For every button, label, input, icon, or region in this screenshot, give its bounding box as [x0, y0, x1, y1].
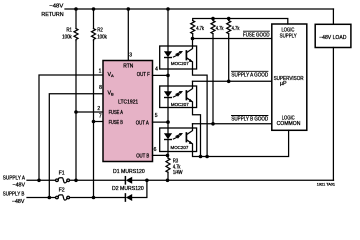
svg-text:OUT A: OUT A: [136, 121, 149, 127]
svg-text:COMMON: COMMON: [277, 121, 301, 127]
opto U3 LED: [167, 128, 169, 133]
svg-text:F2: F2: [59, 188, 65, 194]
svg-text:4: 4: [155, 67, 158, 73]
svg-text:OUT F: OUT F: [137, 72, 151, 78]
resistor R4 4.7k: [191, 21, 195, 34]
wire OUT A stub: [153, 121, 169, 123]
svg-text:SUPPLY: SUPPLY: [280, 33, 297, 39]
svg-text:µP: µP: [280, 81, 287, 87]
diode D1 MURS120: [124, 177, 126, 184]
wire OUT F stub: [153, 74, 169, 76]
node supplyB-VB: [48, 196, 52, 200]
wire opto3 emitter to logic common bus: [193, 130, 289, 156]
svg-text:−48V: −48V: [13, 182, 26, 188]
svg-text:R1: R1: [66, 27, 72, 33]
svg-text:SUPPLY B: SUPPLY B: [3, 192, 25, 198]
resistor R2: [93, 9, 95, 29]
node rail-R1: [74, 7, 78, 11]
wire VB sense L: [49, 94, 103, 198]
wire LED chain opto2 to opto3: [167, 108, 169, 129]
wire FUSEB pin stub: [94, 121, 104, 123]
opto U2 MOC207 box: [160, 86, 197, 108]
wire VA sense L: [39, 75, 103, 180]
wire RTN pin3 drop: [127, 9, 129, 61]
svg-text:SUPPLY A: SUPPLY A: [3, 175, 25, 181]
svg-text:5: 5: [155, 113, 158, 119]
opto U2 arrows: [173, 95, 177, 97]
svg-text:100k: 100k: [97, 35, 107, 41]
node common-opto1: [205, 155, 209, 159]
node common-opto2: [199, 155, 203, 159]
svg-text:VA: VA: [108, 72, 115, 78]
node loadline-R3: [166, 179, 170, 183]
svg-text:FUSE B: FUSE B: [109, 120, 124, 126]
fuse F2: [56, 196, 59, 199]
wire SUPPLY B GOOD: [193, 123, 272, 125]
wire -48V load line: [132, 179, 334, 181]
node rail-R5: [211, 17, 215, 21]
resistor R3: [166, 158, 170, 172]
resistor R1: [75, 9, 77, 29]
svg-text:LTC1921: LTC1921: [118, 100, 138, 106]
node supplyA-VA: [37, 179, 41, 183]
svg-text:FUSE A: FUSE A: [109, 110, 124, 116]
svg-text:1/4W: 1/4W: [173, 170, 183, 176]
node supplyBgood-R5: [211, 122, 215, 126]
opto U1 phototransistor: [185, 51, 187, 60]
svg-text:4.7k: 4.7k: [232, 26, 240, 32]
wire LED chain rail to opto1: [167, 9, 169, 46]
svg-text:OUT B: OUT B: [136, 153, 149, 159]
node OUTA-LED chain: [166, 120, 170, 124]
opto U3 MOC207 box: [160, 128, 197, 152]
node R1-FUSEA: [74, 110, 78, 114]
wire OUT B stub: [153, 154, 168, 156]
svg-text:1: 1: [99, 68, 102, 74]
op IC LTC1921 box: [103, 61, 153, 162]
svg-text:D2 MURS120: D2 MURS120: [112, 186, 144, 192]
node supplyA-R1: [74, 179, 78, 183]
svg-text:1921 TA01: 1921 TA01: [317, 183, 335, 187]
node R2-FUSEB: [92, 120, 96, 124]
wire LED chain opto1 to opto2: [167, 69, 169, 86]
node rail-R2: [92, 7, 96, 11]
wire logic supply pull-up rail: [193, 19, 288, 25]
diode D2 MURS120: [124, 194, 126, 201]
node loadline-D2: [145, 179, 149, 183]
svg-text:SUPPLY B GOOD: SUPPLY B GOOD: [231, 117, 268, 123]
svg-text:F1: F1: [59, 170, 65, 176]
svg-text:−48V: −48V: [12, 199, 25, 205]
wire opto1 emitter to common: [193, 69, 208, 157]
node rail-LED chain: [166, 7, 170, 11]
svg-text:4.7k: 4.7k: [196, 26, 204, 32]
opto U3 phototransistor: [185, 133, 187, 142]
wire opto2 collector to SUPPLY A GOOD: [192, 81, 194, 86]
svg-text:8: 8: [99, 85, 102, 91]
svg-text:MOC207: MOC207: [171, 145, 189, 151]
box logic supply / supervisor / logic common: [272, 24, 307, 130]
svg-text:R2: R2: [97, 27, 103, 33]
opto U2 LED: [167, 86, 169, 91]
overbar SUPPLY A GOOD: [231, 70, 268, 72]
resistor R6 4.7k: [228, 19, 230, 21]
svg-text:100k: 100k: [62, 35, 72, 41]
wire SUPPLY B line: [27, 197, 56, 199]
opto U1 MOC207 box: [160, 46, 197, 69]
wire opto2 emitter to common: [193, 108, 201, 157]
svg-text:−48V: −48V: [49, 4, 63, 10]
resistor R5 4.7k: [212, 19, 214, 21]
wire load box bottom to load line: [332, 48, 334, 181]
opto U2 phototransistor: [185, 91, 187, 100]
node rail-RTN: [127, 7, 131, 11]
node FUSEGOOD-R4: [191, 37, 195, 41]
node OUTF-LED chain: [166, 74, 170, 78]
svg-text:SUPPLY A GOOD: SUPPLY A GOOD: [231, 73, 268, 79]
svg-text:SUPERVISOR: SUPERVISOR: [274, 76, 304, 82]
wire D2 to load line: [132, 180, 147, 197]
svg-text:3: 3: [129, 53, 132, 59]
wire -48V RETURN top rail: [65, 8, 334, 10]
svg-text:MOC207: MOC207: [171, 61, 189, 67]
node supplyB-R2: [92, 196, 96, 200]
node rail-R6: [227, 17, 231, 21]
opto U3 arrows: [173, 137, 177, 139]
wire SUPPLY A GOOD: [193, 80, 272, 82]
overbar SUPPLY B GOOD: [231, 115, 268, 117]
box -48V LOAD: [315, 24, 351, 47]
wire FUSEA pin stub: [76, 111, 103, 113]
svg-text:RTN: RTN: [123, 64, 133, 70]
node OUTB-LED chain: [166, 154, 170, 158]
wire SUPPLY A line: [27, 179, 56, 181]
svg-text:2: 2: [97, 106, 100, 112]
wire LED chain opto3 to R3: [167, 152, 169, 159]
fuse F1: [56, 179, 59, 182]
svg-text:6: 6: [154, 147, 157, 153]
svg-text:7: 7: [99, 114, 102, 120]
svg-text:VB: VB: [108, 91, 115, 97]
svg-text:−48V LOAD: −48V LOAD: [319, 35, 346, 41]
opto U1 LED: [167, 46, 169, 51]
svg-text:FUSE GOOD: FUSE GOOD: [243, 32, 270, 38]
wire FUSE GOOD: [193, 38, 272, 40]
wire opto1 collector to FUSE GOOD: [192, 39, 194, 47]
node supplyAgood-R6: [227, 80, 231, 84]
wire load box top to rail: [332, 9, 334, 24]
svg-text:4.7k: 4.7k: [216, 26, 224, 32]
svg-text:RETURN: RETURN: [41, 12, 63, 18]
svg-text:MOC207: MOC207: [171, 102, 189, 108]
overbar FUSE GOOD: [243, 30, 270, 32]
wire opto3 collector to SUPPLY B GOOD: [192, 124, 194, 128]
opto U1 arrows: [173, 55, 177, 57]
svg-text:D1 MURS120: D1 MURS120: [113, 169, 145, 175]
